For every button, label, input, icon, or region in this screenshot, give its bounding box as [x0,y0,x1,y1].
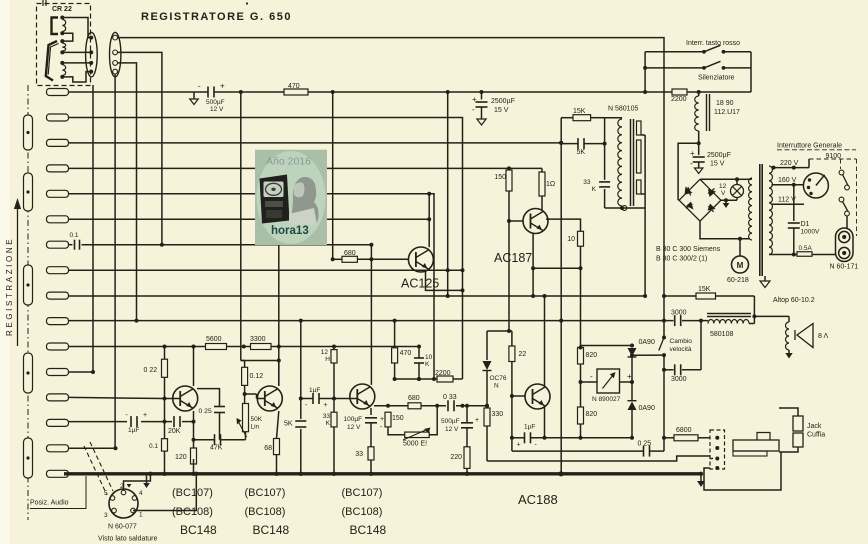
wire P2 pin1 to top bus [117,38,664,321]
output transformer 580108 core [707,313,751,315]
speaker horn [797,324,813,348]
svg-text:Cuffia: Cuffia [807,432,825,439]
resistor 10 [578,231,584,246]
wire 10 to meter rail [580,246,582,347]
wire 33 to bus [370,460,372,474]
resistor 5600 [206,344,227,350]
switch cambio velocita [663,321,665,338]
resistor 220 [464,447,470,469]
resistor 470 (decoupling) [392,348,398,363]
svg-text:+: + [143,412,147,419]
resistor 680 (output) [408,403,421,409]
selector dashed box [809,158,857,160]
svg-text:AC187: AC187 [494,251,532,265]
svg-text:BC148: BC148 [350,523,387,537]
capacitor 2500uF 15V (psu) [698,143,700,155]
inductor 12H [331,350,337,363]
svg-text:-: - [590,372,593,381]
wire 6800 rail [664,437,674,439]
svg-text:AC125: AC125 [401,277,439,291]
wire emitter link 268 [533,267,580,269]
svg-text:+: + [324,402,328,409]
mains plug N 60-171 [836,228,854,262]
wire row14 [69,421,128,423]
wire P2 pin2 via x161.9 [117,52,162,244]
wire 5K [561,143,578,145]
svg-text:(BC108): (BC108) [172,506,213,518]
potentiometer 5000 E! [405,432,430,438]
wire DIN pin2 to bus [124,474,151,490]
svg-text:Lin: Lin [251,424,260,431]
rec head coil upper [62,43,65,51]
svg-text:B 30 C 300 Siemens: B 30 C 300 Siemens [656,246,721,253]
wire 47K feedback [194,439,215,441]
wire x300.8 (row10 drop) [300,321,302,419]
svg-text:470: 470 [288,83,300,90]
svg-text:1µF: 1µF [309,387,320,394]
jack socket [710,430,725,469]
svg-text:Año 2016: Año 2016 [266,156,311,168]
wire tap 220V [772,167,810,169]
mains switch contact 2 [839,197,844,202]
resistor 150 (feedback) [385,412,391,427]
wire speaker feed [754,315,789,317]
wire head-block ground via x93 [92,85,94,372]
transistor Q1 BC148 [173,386,198,411]
svg-text:10: 10 [425,354,433,361]
capacitor 0.25 coupling [214,406,225,408]
svg-text:Interr. tasto rosso: Interr. tasto rosso [686,40,740,47]
svg-text:220: 220 [450,454,462,461]
rec/play head (lower head symbol) [46,41,57,81]
transformer N580105 winding [605,117,622,119]
svg-text:12 V: 12 V [347,424,361,431]
diode 0A90 upper [631,346,633,348]
svg-text:3: 3 [104,512,108,519]
wire 470 to node379 [394,321,396,348]
svg-text:33: 33 [583,179,591,186]
svg-text:+: + [380,416,384,423]
motor M 60-218 [732,256,749,273]
transistor AC188 (output) [525,384,550,409]
wire tap 160V [772,184,804,186]
wire AC187 collector [541,196,543,211]
svg-text:Visto lato saldature: Visto lato saldature [98,536,158,543]
wire Q1 to 0.25 [197,389,220,407]
svg-text:+: + [220,82,225,91]
svg-text:(BC107): (BC107) [245,487,286,499]
svg-text:60-218: 60-218 [727,277,749,284]
wire Q3 base net [301,398,313,400]
resistor 2200 (bias feed) [672,89,687,95]
svg-text:BC148: BC148 [180,523,217,537]
resistor 22 [509,346,515,362]
svg-text:15 V: 15 V [710,161,725,168]
capacitor 10K [414,357,424,359]
svg-text:100µF: 100µF [344,416,363,423]
wire row10 speaker line [69,320,674,322]
capacitor 1uF (AC188) [524,432,526,443]
resistor 330 [486,406,488,408]
svg-text:5600: 5600 [206,336,222,343]
svg-text:0A90: 0A90 [639,339,655,346]
wire x335 (row1 to 680) [332,92,334,259]
resistor 0.1 [162,439,168,451]
jack sleeve contacts [793,416,803,431]
svg-text:V: V [721,190,726,197]
ground at 2500uF [694,168,702,174]
svg-text:120: 120 [175,454,187,461]
svg-text:12: 12 [719,183,727,190]
svg-text:+: + [517,442,521,449]
wire 33K to bus [333,427,335,474]
svg-text:220 V: 220 V [780,160,799,167]
transistor Q3 BC148 [350,384,375,409]
svg-text:N 60-077: N 60-077 [108,524,137,531]
speck above title [246,2,248,4]
wire row12 [69,371,94,373]
svg-text:0.1: 0.1 [70,232,79,239]
capacitor 5K (osc) [577,138,579,149]
capacitor 500uF 12V output [461,422,473,424]
wire meter block top [581,345,633,347]
transformer N580105 secondary [637,121,642,135]
wire Q1 base [165,398,181,400]
resistor 0.22 [162,359,168,377]
wire row6 [69,218,430,220]
wire rec coil to P1 pin3 [62,62,91,64]
wire AC187 emitter tap [546,219,581,231]
svg-text:(BC108): (BC108) [342,506,383,518]
svg-text:K: K [326,420,331,427]
capacitor 1uF input [130,416,132,427]
capacitor 3000 upper [674,315,676,326]
wire 220 to bus [466,468,468,473]
wire 680 to AC125 [333,258,342,260]
wire x645 osc vertical [644,135,646,296]
rec head coil lower [62,65,65,76]
connector P2 (chassis side) [110,32,121,77]
svg-text:N 60-171: N 60-171 [830,264,859,271]
capacitor D1 1000V [793,185,795,221]
wire feedback loop [388,427,405,435]
svg-text:+: + [690,149,695,158]
fuse 0.5A [769,254,797,256]
wire x278.8 (to Q2 collector) [278,245,280,385]
mains transformer primary [737,178,750,180]
svg-text:18 90: 18 90 [716,100,734,107]
svg-text:2200: 2200 [671,96,687,103]
svg-text:12 V: 12 V [445,426,459,433]
svg-text:1µF: 1µF [128,427,139,434]
switch interr. tasto rosso [702,50,706,54]
DIN socket N 60-077 [109,489,138,518]
svg-text:820: 820 [586,352,598,359]
bridge rectifier B30 C300 [679,179,721,221]
wire OC76 rail top [508,221,510,331]
headphone plug [733,440,779,451]
svg-text:CR 22: CR 22 [52,6,72,13]
wire x242 (row1 to vol pot) [240,92,242,361]
wire pot bottom [245,432,247,440]
wire to bridge ac1 [678,143,699,200]
resistor 1 ohm [539,172,545,196]
resistor 820 upper [578,348,584,365]
svg-text:B 30 C 300/2 (1): B 30 C 300/2 (1) [656,256,707,263]
wire 500uF to 220 [466,406,468,423]
wire x561 (15K corner to bus) [560,118,562,474]
capacitor 500uF 12V (on row1) [207,87,209,98]
wire AC187 emitter [532,233,534,297]
svg-text:hora13: hora13 [271,225,309,237]
svg-text:150: 150 [494,174,506,181]
svg-text:Jack: Jack [807,423,822,430]
svg-text:6800: 6800 [676,427,692,434]
transformer N580105 primary wire [604,118,606,180]
svg-text:150: 150 [392,415,404,422]
svg-text:680: 680 [344,250,356,257]
svg-text:1Ω: 1Ω [546,181,555,188]
transistor AC187 [523,209,548,234]
wire Q3 collector riser [370,245,372,385]
wire Q2 emitter [277,411,279,439]
svg-text:K: K [592,186,597,193]
svg-text:2200: 2200 [435,370,451,377]
svg-text:0A90: 0A90 [639,405,655,412]
ground at 500uF [193,92,195,99]
wire Q3 output [374,405,408,407]
speaker coil [788,316,790,322]
capacitor 0.25 (jack) [512,450,643,452]
svg-text:0 33: 0 33 [443,394,457,401]
svg-text:N 890027: N 890027 [592,396,621,403]
svg-text:+: + [472,95,477,104]
chassis arrow under bus [146,474,148,483]
svg-text:33: 33 [323,413,331,420]
svg-text:-: - [198,82,201,91]
svg-text:12: 12 [321,349,329,356]
switch silenziatore [702,66,706,70]
svg-text:330: 330 [492,411,504,418]
wire row15 [69,447,116,449]
svg-text:15K: 15K [698,286,711,293]
svg-text:Altop 60-10.2: Altop 60-10.2 [773,297,815,304]
transformer N580105 core [630,119,632,206]
svg-text:820: 820 [586,411,598,418]
svg-text:5K: 5K [284,421,293,428]
switch actuator bar (mechanical link) [27,85,29,520]
svg-text:5: 5 [104,490,108,497]
svg-text:OC76: OC76 [490,375,507,382]
wire AC188 collector [544,296,546,387]
svg-text:15 V: 15 V [494,107,509,114]
svg-text:5K: 5K [577,149,586,156]
svg-text:+: + [475,417,479,424]
wire 0A90 to cambio switch [632,354,664,356]
wire P2 pin3 via x136.5 [117,63,136,321]
svg-text:2500µF: 2500µF [707,152,731,159]
svg-text:2500µF: 2500µF [491,98,515,105]
svg-text:0 22: 0 22 [144,367,158,374]
wire row1 supply bus (contact1 to rectifier) [69,91,191,93]
coil 18 90 112.U17 [695,96,699,131]
svg-text:5000 E!: 5000 E! [403,441,427,448]
svg-text:Cambio: Cambio [670,338,693,345]
svg-text:(BC108): (BC108) [245,506,286,518]
output transformer 580108 winding [708,319,749,323]
svg-text:10: 10 [567,236,575,243]
resistor 150 (AC187 base) [506,170,512,191]
svg-text:8 Λ: 8 Λ [818,333,828,340]
wire osc bottom [605,207,646,209]
svg-text:1000V: 1000V [801,229,820,236]
svg-text:22: 22 [519,351,527,358]
wire AC187 base [508,191,510,221]
wire row13 [69,397,165,398]
mains transformer secondary [769,166,772,255]
wire Q1 emitter [193,411,195,448]
svg-text:N: N [494,383,499,390]
capacitor 0.33 [447,400,449,411]
wire 15K [561,117,573,119]
capacitor 5K [295,420,306,422]
svg-text:3000: 3000 [671,310,687,317]
resistor 680 (AC125 base) [342,256,357,262]
wire row3 [69,142,562,144]
svg-text:112.U17: 112.U17 [714,109,740,116]
svg-text:REGISTRATORE G. 650: REGISTRATORE G. 650 [141,11,292,23]
wire row16 common bus (thick) [64,472,701,475]
svg-text:(BC107): (BC107) [172,487,213,499]
svg-text:580108: 580108 [710,331,733,338]
wire coil to psu node [698,131,700,143]
wire erase head to P1 pin1 [62,18,91,38]
capacitor 33K (osc) [599,181,610,183]
wire 10K cap [418,347,420,359]
svg-text:4: 4 [139,490,143,497]
ground at lamp [725,200,727,203]
resistor 15K (osc) [573,115,591,121]
shielded cable dashes [84,446,107,495]
mains transformer core [759,164,761,276]
wire row8 [69,269,463,271]
wire row9 output node [69,295,646,297]
resistor 470 (row1) [284,89,308,95]
capacitor 2500uF 15V (center) [481,92,483,100]
wire tap 112V [772,203,805,205]
svg-text:47K: 47K [210,445,223,452]
svg-text:D1: D1 [801,221,810,228]
svg-text:velocità: velocità [670,346,692,353]
transistor AC125 [408,247,433,272]
capacitor 1uF coupling Q3 [312,393,314,404]
wire Q2 base [245,393,257,395]
resistor 33K bias [331,412,337,427]
wire AC125 collector [428,194,430,247]
capacitor 3000 lower [663,355,665,370]
svg-text:12 V: 12 V [210,106,224,113]
ground at speaker [788,350,790,353]
wire 150/1ohm top [508,168,510,170]
capacitor 100uF 12V [365,417,377,419]
wire x447.7 (row1 to row8/9) [447,92,449,298]
resistor 33 [368,447,374,460]
diode 0A90 lower [631,382,633,400]
svg-text:AC188: AC188 [518,492,558,507]
wire Q1 collector [193,347,195,387]
resistor 2200 (decoupling) [437,376,453,382]
wire DIN pin1 to bus [133,474,196,511]
wire switch bus right [750,52,752,92]
dashed box CR 22 [37,4,91,86]
resistor 120 [191,448,197,464]
lamp 12V [731,185,744,198]
transistor Q2 BC148 [257,386,282,411]
switch contact bank S1 (16 contacts) [47,89,69,96]
resistor 3300 [251,344,272,350]
svg-text:(BC107): (BC107) [342,487,383,499]
wire erase to rec head link [62,33,73,41]
wire rec coil to P1 pin2 [62,51,91,53]
svg-text:K: K [425,361,430,368]
svg-text:50K: 50K [251,416,263,423]
svg-text:680: 680 [408,395,420,402]
wire row2 [69,118,463,380]
stub at box top [42,0,44,6]
capacitor 47K [214,434,216,445]
voltage selector dial [803,173,828,198]
svg-text:REGISTRAZIONE: REGISTRAZIONE [5,237,14,336]
wire x164.5 bias chain [164,347,166,360]
mains switch contact 1 [839,170,844,175]
resistor 0.12 [242,367,248,385]
svg-text:-: - [472,105,475,114]
potentiometer 50K Lin (volume) [243,404,249,432]
wire lamp to bridge right [721,199,737,201]
wire bridge dc- bottom [700,221,750,239]
ground at center cap [477,119,486,125]
capacitor 20K [173,416,175,427]
wire cambio to jack [663,370,665,451]
svg-text:-: - [690,159,693,168]
svg-text:Interruttore Generale: Interruttore Generale [777,143,842,150]
svg-text:160 V: 160 V [778,177,797,184]
ground transformer [764,276,766,281]
svg-text:15K: 15K [573,108,586,115]
wire rec coil to P1 pin4 [62,72,91,82]
svg-text:68: 68 [264,445,272,452]
wire 330 jack line [487,456,710,461]
svg-text:0.1: 0.1 [149,443,158,450]
svg-text:H: H [325,356,330,363]
svg-text:3300: 3300 [250,336,266,343]
svg-text:500µF: 500µF [441,418,460,425]
ground DIN marker [127,484,132,488]
svg-text:BC148: BC148 [253,523,290,537]
wire bridge dc+ to lamp rail [700,178,737,180]
svg-text:1µF: 1µF [524,424,535,431]
svg-text:0.12: 0.12 [250,373,264,380]
wire Q3 emitter [370,408,372,415]
svg-text:0 25: 0 25 [638,441,652,448]
wire jack return [704,452,781,490]
wire switch bus left [644,52,646,92]
wire 580108 right [749,323,754,325]
wire meter left rail [580,364,582,407]
svg-text:Silenziatore: Silenziatore [698,75,735,82]
svg-text:0.5A: 0.5A [799,245,813,252]
capacitor 0.1 (row7) [69,244,73,246]
